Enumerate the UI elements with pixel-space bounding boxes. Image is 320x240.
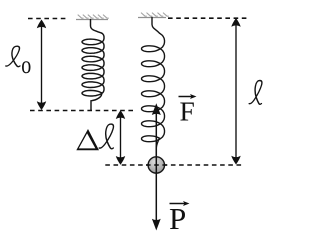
measure arrow l0 (left) [41,23,43,108]
ceiling (left support) [76,15,109,20]
ceiling (right support) [138,13,169,18]
weight arrow P (down) [155,173,157,222]
measure arrow delta-l [120,113,122,162]
spring (unstretched, left) [82,20,104,111]
svg-text:P: P [169,201,186,236]
label l0 [6,46,23,66]
label delta-l [76,129,99,150]
dashes over ball [146,164,167,166]
wire through ball [155,157,157,173]
svg-text:o: o [21,52,31,79]
ball (mass) [148,157,164,173]
top reference dashed line (left segment) [28,18,67,20]
force arrow F (up along spring) [155,111,157,156]
top reference dashed line (right segment) [168,17,250,19]
svg-text:F: F [180,96,195,127]
middle dashed line (natural length level) [30,110,135,112]
label l (right) [249,81,265,105]
spring (stretched, right) [142,18,165,159]
bottom dashed line (stretched level) [105,164,243,166]
measure arrow l (right) [235,21,237,162]
